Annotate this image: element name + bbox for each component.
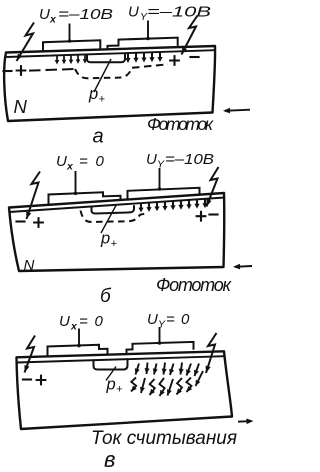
readout charge spray upper row (v): [135, 363, 199, 377]
svg-text:=–10В: =–10В: [58, 6, 113, 23]
minus sign right (a): [189, 56, 199, 58]
photon bolt left (b): [26, 172, 40, 220]
depletion dashed dip around p+ (a): [75, 68, 132, 79]
svg-text:x: x: [66, 161, 74, 173]
oxide slab lower line (b): [10, 198, 225, 213]
body outline (v): [17, 351, 233, 429]
p+ well (v): [94, 359, 128, 369]
readout charge spray lower row (v): [131, 371, 203, 396]
photon bolt right (b): [207, 167, 219, 207]
field arrows under gate X (a): [55, 55, 88, 65]
svg-text:в: в: [104, 447, 115, 472]
label Uy=-10V (a): [128, 4, 211, 24]
svg-text:U: U: [128, 4, 139, 21]
svg-text:б: б: [100, 286, 112, 307]
svg-text:U: U: [147, 311, 158, 328]
gate Y electrode (v): [127, 342, 194, 354]
svg-text:U: U: [56, 153, 67, 170]
plus sign right (a): [169, 55, 180, 66]
body outline (b): [9, 193, 224, 271]
minus sign left (v): [22, 378, 32, 380]
depletion dashed line left (a): [29, 69, 75, 71]
lead wire X (a): [68, 24, 72, 43]
svg-text:p: p: [106, 376, 116, 394]
label p+ (b): [100, 230, 118, 251]
svg-text:=: =: [79, 313, 88, 330]
svg-text:=: =: [79, 153, 88, 170]
photon bolt left (a): [17, 23, 35, 62]
oxide slab lower line (a): [7, 50, 215, 57]
charge arrows under gate Y (b): [138, 199, 207, 212]
label Ux=0 (v): [59, 313, 104, 333]
svg-text:=–10В: =–10В: [147, 4, 211, 21]
pointer line to p+ (b): [101, 205, 117, 234]
gate X electrode (a): [43, 40, 100, 51]
svg-text:p: p: [88, 85, 98, 103]
svg-text:=: =: [166, 311, 175, 328]
depletion dashed dip around p+ (b): [81, 211, 146, 222]
svg-text:Ток считывания: Ток считывания: [91, 428, 237, 449]
svg-text:+: +: [111, 238, 118, 250]
photon bolt right (v): [206, 333, 217, 373]
photon bolt left (v): [25, 336, 36, 373]
pointer line to p+ (a): [94, 59, 111, 92]
p+ well (a): [87, 53, 125, 62]
svg-text:+: +: [116, 384, 123, 396]
svg-text:Фототок: Фототок: [147, 114, 214, 134]
minus sign left (b): [15, 220, 25, 222]
gate Y electrode (b): [128, 188, 200, 200]
svg-text:U: U: [39, 6, 50, 23]
svg-text:U: U: [146, 151, 157, 168]
svg-text:+: +: [99, 94, 106, 106]
panel v group: [17, 311, 254, 472]
svg-text:0: 0: [95, 313, 104, 330]
label p+ (v): [106, 376, 124, 396]
svg-text:N: N: [14, 96, 28, 117]
oxide slab lower line (v): [17, 356, 225, 362]
gate Y electrode (a): [108, 38, 178, 51]
label Ux=0 (b): [56, 153, 105, 173]
field arrows under gate Y (a): [125, 53, 162, 64]
svg-text:x: x: [49, 14, 57, 26]
readout current arrow (v): [238, 419, 254, 425]
plus sign right (b): [196, 211, 207, 222]
gate X electrode (b): [49, 192, 121, 204]
photocurrent arrow (b): [233, 264, 252, 270]
label Ux=-10V (a): [39, 6, 113, 26]
label Uy=0 (v): [147, 311, 190, 331]
plus sign left (b): [33, 217, 44, 228]
panel b group: [9, 151, 252, 307]
p+ well (b): [92, 205, 135, 213]
minus sign left (a): [2, 70, 12, 72]
lead wire X (b): [74, 171, 78, 195]
svg-text:а: а: [93, 126, 104, 148]
lead wire Y (v): [158, 327, 162, 345]
svg-text:0: 0: [181, 311, 190, 328]
panel a group: [2, 4, 250, 148]
svg-text:=–10В: =–10В: [165, 151, 214, 168]
svg-text:Y: Y: [157, 159, 165, 171]
depletion dashed line right (a): [132, 64, 168, 68]
svg-text:N: N: [24, 257, 35, 274]
photocurrent arrow (a): [223, 108, 250, 114]
svg-text:p: p: [100, 230, 110, 248]
svg-text:x: x: [70, 321, 78, 333]
body outline (a): [4, 46, 215, 121]
svg-text:Фототок: Фототок: [156, 275, 233, 295]
minus sign right (b): [208, 213, 218, 215]
gate X electrode (v): [48, 345, 108, 356]
photon bolt right (a): [182, 16, 198, 55]
plus sign left (v): [36, 375, 47, 386]
label Uy=-10V (b): [146, 151, 214, 171]
pointer line to p+ (v): [106, 367, 116, 381]
lead wire X (v): [77, 329, 81, 348]
lead wire Y (a): [146, 21, 150, 41]
svg-text:0: 0: [96, 153, 105, 170]
label p+ (a): [88, 85, 106, 106]
plus sign left (a): [16, 65, 27, 76]
svg-text:U: U: [59, 313, 70, 330]
lead wire Y (b): [158, 168, 162, 191]
